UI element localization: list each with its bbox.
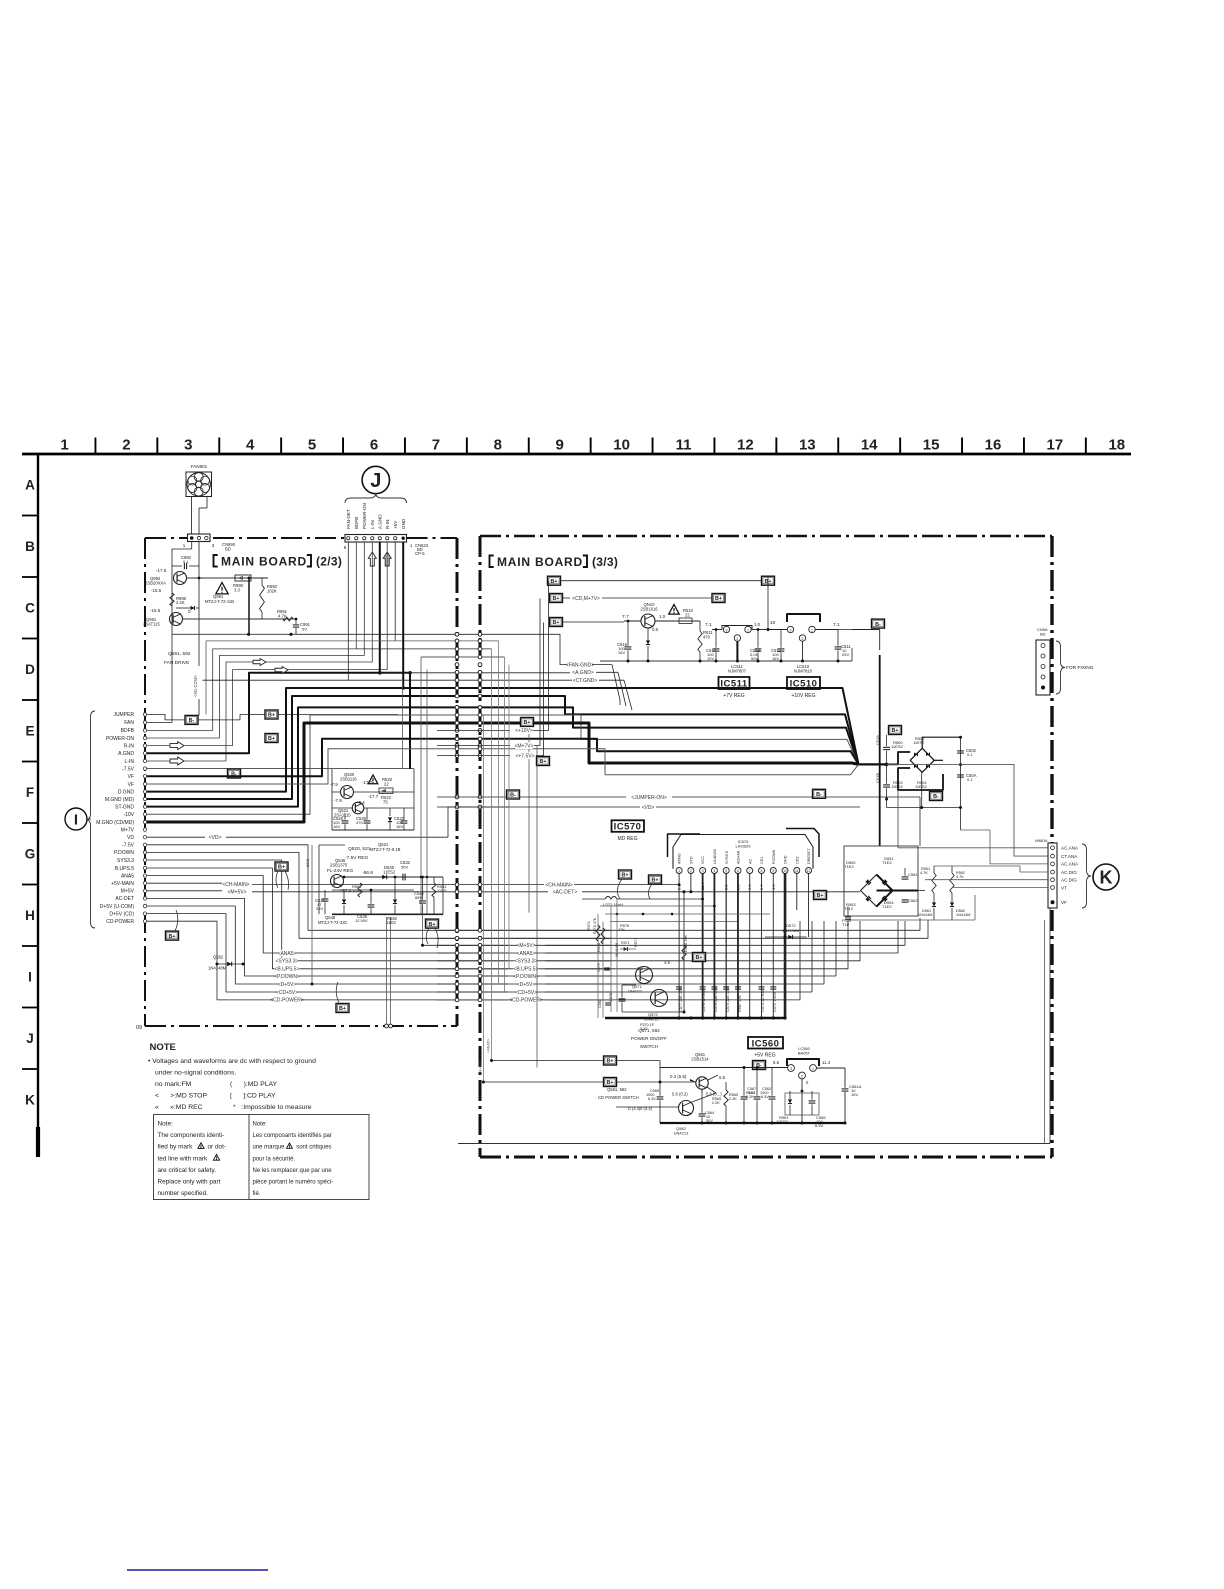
svg-text:<CD+5V>: <CD+5V> xyxy=(515,990,537,996)
svg-text:B+: B+ xyxy=(715,596,722,602)
svg-text:BDFB: BDFB xyxy=(354,517,359,529)
svg-text:11ES: 11ES xyxy=(386,920,396,925)
svg-text:T1E2: T1E2 xyxy=(844,864,854,869)
svg-text:<VD>: <VD> xyxy=(642,805,655,811)
svg-text:D: D xyxy=(25,662,35,677)
svg-text:C575 22E 10V: C575 22E 10V xyxy=(714,987,718,1012)
svg-text:2: 2 xyxy=(690,869,692,873)
svg-text:CD-POWER: CD-POWER xyxy=(106,919,134,925)
svg-text:16V: 16V xyxy=(851,1092,858,1097)
svg-text:R576 10K: R576 10K xyxy=(684,935,688,952)
svg-text:M+5V: M+5V xyxy=(121,889,135,895)
svg-text:AC.ANA: AC.ANA xyxy=(1061,862,1079,867)
svg-text:16V: 16V xyxy=(772,656,779,661)
svg-text:-15.5: -15.5 xyxy=(151,588,162,593)
svg-text:12: 12 xyxy=(807,869,811,873)
svg-text:B+: B+ xyxy=(539,759,546,765)
svg-text:2SB1616: 2SB1616 xyxy=(640,607,658,612)
svg-text:( ):MD PLAY: ( ):MD PLAY xyxy=(230,1081,278,1088)
svg-text:2: 2 xyxy=(802,637,804,641)
svg-text:1: 1 xyxy=(812,1067,814,1071)
svg-text:(3/3): (3/3) xyxy=(592,555,618,569)
svg-text:5V: 5V xyxy=(302,627,307,632)
svg-text:B+: B+ xyxy=(278,865,285,871)
svg-text:T1E2: T1E2 xyxy=(882,860,892,865)
svg-text:no mark:FM: no mark:FM xyxy=(155,1081,192,1088)
svg-text:R571: R571 xyxy=(634,938,638,947)
svg-text:VD: VD xyxy=(127,835,134,841)
svg-text:47K: 47K xyxy=(618,928,625,932)
svg-text:K: K xyxy=(25,1093,35,1108)
svg-text:7.7: 7.7 xyxy=(622,614,629,620)
svg-text:AC: AC xyxy=(748,858,752,864)
svg-text:C577 22E 10V: C577 22E 10V xyxy=(679,987,683,1012)
svg-text:7: 7 xyxy=(432,437,440,454)
svg-text:B+: B+ xyxy=(606,1059,613,1065)
svg-text:IC570: IC570 xyxy=(614,822,642,833)
svg-text:• Voltages and waveforms are d: • Voltages and waveforms are dc with res… xyxy=(148,1058,316,1065)
svg-text:ted line with mark: ted line with mark xyxy=(158,1155,209,1162)
svg-text:2SB1514: 2SB1514 xyxy=(691,1057,709,1062)
svg-text:MAIN BOARD: MAIN BOARD xyxy=(221,555,307,569)
svg-text:P.DOWN: P.DOWN xyxy=(114,850,134,856)
svg-text:B+: B+ xyxy=(621,873,628,879)
svg-text:<ANA5>: <ANA5> xyxy=(278,951,297,957)
svg-text:<FAN-GND>: <FAN-GND> xyxy=(566,662,594,668)
svg-text:35V: 35V xyxy=(316,906,323,911)
svg-text:<D+5V>: <D+5V> xyxy=(278,982,297,988)
svg-text:6: 6 xyxy=(370,437,378,454)
svg-text:3.3: 3.3 xyxy=(637,966,643,971)
svg-text:1N4148M: 1N4148M xyxy=(208,966,227,971)
svg-text:B+: B+ xyxy=(550,579,557,585)
svg-text:G: G xyxy=(25,847,36,862)
svg-text:VF: VF xyxy=(128,774,134,780)
svg-text:<CD,M+7V>: <CD,M+7V> xyxy=(572,596,600,602)
svg-text:9: 9 xyxy=(772,869,774,873)
svg-text:FAN901: FAN901 xyxy=(191,464,208,469)
svg-text:GND: GND xyxy=(784,855,788,864)
svg-text:<A.GND>: <A.GND> xyxy=(572,670,594,676)
svg-text:B+: B+ xyxy=(552,596,559,602)
svg-text:C579: C579 xyxy=(597,963,601,972)
svg-text:6.3V: 6.3V xyxy=(761,1095,769,1099)
svg-text:<CH-MAIN>: <CH-MAIN> xyxy=(222,882,249,888)
svg-text:-56.8: -56.8 xyxy=(362,870,373,876)
svg-text:BD: BD xyxy=(225,547,231,552)
svg-text:SWITCH: SWITCH xyxy=(640,1044,658,1049)
svg-text:2.2K: 2.2K xyxy=(176,600,185,605)
svg-text:1: 1 xyxy=(747,628,749,632)
svg-text:Replace only with part: Replace only with part xyxy=(158,1179,221,1186)
svg-text:2.2K: 2.2K xyxy=(712,1101,720,1105)
svg-text:VF: VF xyxy=(1061,900,1067,905)
svg-text:<P.DOWN>: <P.DOWN> xyxy=(274,974,300,980)
svg-text:ULANA5: ULANA5 xyxy=(713,849,717,864)
svg-text:102K: 102K xyxy=(267,589,277,594)
svg-text:<JUMPER-ON>: <JUMPER-ON> xyxy=(631,795,667,801)
svg-text:STD: STD xyxy=(689,856,693,864)
svg-text:11: 11 xyxy=(795,869,799,873)
svg-text:2SB1375: 2SB1375 xyxy=(330,863,348,868)
svg-text:BD: BD xyxy=(1040,632,1046,637)
svg-text:C562: C562 xyxy=(908,898,918,903)
svg-text:5: 5 xyxy=(308,437,316,454)
svg-text:IC560: IC560 xyxy=(752,1038,780,1049)
svg-text:Q561, 562: Q561, 562 xyxy=(607,1087,627,1092)
svg-text:ANA5: ANA5 xyxy=(121,873,134,879)
svg-text:UN4111: UN4111 xyxy=(628,989,643,994)
svg-text:MAIN BOARD: MAIN BOARD xyxy=(497,555,583,569)
svg-text:Note:: Note: xyxy=(158,1121,173,1128)
svg-text:B-: B- xyxy=(875,622,881,628)
svg-text:-33.4: -33.4 xyxy=(340,888,351,894)
svg-text:(2/3): (2/3) xyxy=(316,555,342,569)
svg-text:6: 6 xyxy=(737,869,739,873)
svg-text:LACB29: LACB29 xyxy=(736,844,752,849)
svg-text:B: B xyxy=(25,539,35,554)
svg-text:IC511: IC511 xyxy=(720,679,748,690)
svg-text:T1E2: T1E2 xyxy=(882,904,892,909)
svg-text:ATMG: ATMG xyxy=(678,853,682,864)
svg-text:are critical for safety.: are critical for safety. xyxy=(158,1167,217,1174)
svg-text:FL-24V REG: FL-24V REG xyxy=(327,868,354,873)
svg-text:H: H xyxy=(25,908,35,923)
svg-text:Q520, 521: Q520, 521 xyxy=(348,846,371,852)
svg-text:09: 09 xyxy=(136,1025,142,1031)
svg-text:2: 2 xyxy=(122,437,130,454)
svg-text:4.7K: 4.7K xyxy=(956,875,964,879)
svg-text:1N414M: 1N414M xyxy=(615,943,619,957)
svg-text:3.3V: 3.3V xyxy=(640,1027,648,1031)
svg-text:1: 1 xyxy=(811,628,813,632)
svg-text:T012: T012 xyxy=(844,906,854,911)
svg-text:B+: B+ xyxy=(428,922,435,928)
svg-text:JUMPER: JUMPER xyxy=(113,712,134,718)
svg-text:5.6: 5.6 xyxy=(719,1075,726,1080)
svg-text:1/2W: 1/2W xyxy=(352,888,362,893)
svg-text:B-: B- xyxy=(189,718,195,724)
svg-text:C573 22 50V: C573 22 50V xyxy=(761,989,765,1012)
svg-text:-7.9: -7.9 xyxy=(330,782,338,787)
svg-text:4.7K: 4.7K xyxy=(920,871,928,875)
svg-text:-7.5V: -7.5V xyxy=(122,843,135,849)
svg-text:C578: C578 xyxy=(609,993,613,1002)
svg-text:R-IN: R-IN xyxy=(385,520,390,529)
svg-text:pièce portant le numéro spéci-: pièce portant le numéro spéci- xyxy=(253,1180,334,1186)
svg-text:12 50V: 12 50V xyxy=(355,918,368,923)
svg-text:50V: 50V xyxy=(401,865,408,870)
svg-text:5.6 (0.2): 5.6 (0.2) xyxy=(672,1092,688,1097)
svg-text:17: 17 xyxy=(1047,437,1064,454)
svg-text:C574 22E 10V: C574 22E 10V xyxy=(726,987,730,1012)
svg-text:-15.5: -15.5 xyxy=(150,608,161,613)
svg-text:<VD>: <VD> xyxy=(209,835,222,841)
svg-text:12: 12 xyxy=(737,437,754,454)
svg-text:I: I xyxy=(28,970,32,985)
svg-text:J: J xyxy=(370,470,381,492)
svg-text:CD1: CD1 xyxy=(760,856,764,864)
svg-text:4.7K: 4.7K xyxy=(278,614,287,619)
svg-text:16V: 16V xyxy=(618,650,625,655)
svg-text:AGHAK: AGHAK xyxy=(737,850,741,864)
svg-text:B+: B+ xyxy=(552,620,559,626)
svg-text:6.3V: 6.3V xyxy=(648,1097,656,1101)
svg-text:The components identi-: The components identi- xyxy=(158,1132,225,1139)
svg-text:J: J xyxy=(26,1031,34,1046)
svg-text:16: 16 xyxy=(985,437,1002,454)
svg-text:3.3: 3.3 xyxy=(234,588,240,593)
svg-text:8: 8 xyxy=(494,437,502,454)
svg-text:-10V: -10V xyxy=(123,812,134,818)
svg-text:<M1-COM>: <M1-COM> xyxy=(193,675,198,697)
svg-text:C576 10 50V: C576 10 50V xyxy=(702,989,706,1012)
svg-text:R578: R578 xyxy=(597,943,601,952)
svg-text:10: 10 xyxy=(770,620,776,626)
svg-text:-52.6: -52.6 xyxy=(305,858,310,868)
svg-text:pour la sécurité.: pour la sécurité. xyxy=(253,1156,296,1162)
svg-text:16V: 16V xyxy=(333,824,340,829)
svg-text:0.01: 0.01 xyxy=(748,1091,755,1095)
svg-text:<B.UPS.5>: <B.UPS.5> xyxy=(274,967,299,973)
svg-text:C: C xyxy=(25,601,35,616)
svg-text:1: 1 xyxy=(678,869,680,873)
svg-text:E: E xyxy=(25,724,34,739)
svg-text:11ES: 11ES xyxy=(437,888,447,893)
svg-text:BA05T: BA05T xyxy=(798,1051,811,1056)
svg-text:3: 3 xyxy=(702,869,704,873)
svg-text:B-: B- xyxy=(816,792,822,798)
svg-text:<AC-DET>: <AC-DET> xyxy=(553,890,578,896)
svg-text:AC-DET: AC-DET xyxy=(115,896,134,902)
svg-text:7.1: 7.1 xyxy=(705,622,712,628)
svg-text:B+: B+ xyxy=(695,955,702,961)
svg-text:<CH-MAIN>: <CH-MAIN> xyxy=(545,882,572,888)
svg-text:VF: VF xyxy=(128,782,134,788)
svg-text:25V: 25V xyxy=(842,652,849,657)
svg-text:T1P: T1P xyxy=(842,922,850,927)
svg-text:GND: GND xyxy=(401,518,406,529)
svg-text:-7.5V REG: -7.5V REG xyxy=(345,855,368,861)
svg-text:CP-5: CP-5 xyxy=(415,551,425,556)
svg-text:<SYS3.3>: <SYS3.3> xyxy=(515,959,538,965)
svg-text:I: I xyxy=(74,812,78,829)
svg-text:C561: C561 xyxy=(908,872,918,877)
svg-text:CT.ANA: CT.ANA xyxy=(1061,854,1078,859)
svg-text:D+5V (U-COM): D+5V (U-COM) xyxy=(100,904,135,910)
svg-text:F: F xyxy=(26,785,34,800)
svg-text:7.1: 7.1 xyxy=(833,622,840,628)
svg-text:75: 75 xyxy=(383,800,388,805)
svg-text:<D+5V>: <D+5V> xyxy=(517,982,536,988)
svg-text:B+: B+ xyxy=(168,934,175,940)
svg-text:5.6: 5.6 xyxy=(773,1060,780,1065)
svg-text:B+: B+ xyxy=(651,878,658,884)
svg-text:R-IN: R-IN xyxy=(124,743,135,749)
svg-text:1N414M: 1N414M xyxy=(956,913,970,917)
svg-text:+10V REG: +10V REG xyxy=(791,693,815,699)
svg-text:0.3 (5.6): 0.3 (5.6) xyxy=(670,1074,687,1079)
svg-text:0.1: 0.1 xyxy=(183,559,189,564)
svg-text:<CD-POWER>: <CD-POWER> xyxy=(509,998,543,1004)
svg-text:B+: B+ xyxy=(268,736,275,742)
svg-text:<+10V>: <+10V> xyxy=(515,728,533,734)
svg-text:FAN DRIVE: FAN DRIVE xyxy=(164,660,189,666)
svg-text:AC.DIG: AC.DIG xyxy=(1061,870,1077,875)
svg-text:fié.: fié. xyxy=(253,1191,261,1197)
svg-text:N980A: N980A xyxy=(1035,838,1048,843)
svg-text:<CT.GND>: <CT.GND> xyxy=(573,678,598,684)
svg-text:10V: 10V xyxy=(707,656,714,661)
svg-text:3: 3 xyxy=(184,437,192,454)
svg-text:<M+5V>: <M+5V> xyxy=(479,1060,483,1075)
svg-text:fied by mark: fied by mark xyxy=(158,1144,194,1151)
svg-text:VT: VT xyxy=(1061,885,1067,890)
svg-text:0.5: 0.5 xyxy=(652,627,659,632)
svg-text:UN4211: UN4211 xyxy=(644,1017,659,1022)
svg-text:11: 11 xyxy=(676,437,692,454)
svg-text:< >:MD STOP: < >:MD STOP xyxy=(155,1093,207,1100)
svg-text:R567 47K: R567 47K xyxy=(738,995,742,1012)
svg-text:68V: 68V xyxy=(415,895,422,900)
svg-text:14: 14 xyxy=(861,437,878,454)
svg-text:+5V: +5V xyxy=(393,520,398,529)
svg-text:Les composants identifiés par: Les composants identifiés par xyxy=(253,1133,332,1139)
svg-text:R574: R574 xyxy=(587,921,591,930)
svg-text:<B.UPS.5>: <B.UPS.5> xyxy=(513,967,538,973)
svg-text:+5V-MAIN: +5V-MAIN xyxy=(111,881,134,887)
svg-text:A.GND: A.GND xyxy=(118,751,134,757)
svg-text:DRESET: DRESET xyxy=(807,848,811,864)
svg-text:2SB1116: 2SB1116 xyxy=(340,777,357,782)
svg-text:3: 3 xyxy=(790,1067,792,1071)
svg-text:* :Impossible to measure: * :Impossible to measure xyxy=(233,1104,312,1111)
svg-text:1.0: 1.0 xyxy=(754,622,761,627)
svg-text:IC510: IC510 xyxy=(790,679,818,690)
svg-text:MD REG: MD REG xyxy=(618,836,638,842)
svg-text:UN4213: UN4213 xyxy=(674,1131,689,1136)
svg-text:13: 13 xyxy=(799,437,816,454)
svg-text:POWER ON/OFF: POWER ON/OFF xyxy=(631,1036,667,1041)
svg-text:<M+5V>: <M+5V> xyxy=(516,943,535,949)
svg-text:[ ]:CD PLAY: [ ]:CD PLAY xyxy=(230,1093,276,1100)
svg-text:2SAT115: 2SAT115 xyxy=(143,622,161,627)
svg-text:FOR FIXING: FOR FIXING xyxy=(1066,665,1094,671)
svg-text:L-IN: L-IN xyxy=(125,759,135,765)
svg-text:SYS5.5: SYS5.5 xyxy=(725,851,729,864)
svg-text:8: 8 xyxy=(761,869,763,873)
svg-text:<CD-POWER>: <CD-POWER> xyxy=(270,998,304,1004)
svg-text:1N414M: 1N414M xyxy=(918,913,932,917)
svg-text:MTZJ-T-72-9.1B: MTZJ-T-72-9.1B xyxy=(370,847,401,852)
svg-text:SYS3.3: SYS3.3 xyxy=(117,858,134,864)
svg-text:R57A 47K: R57A 47K xyxy=(593,917,597,934)
svg-text:11ES2: 11ES2 xyxy=(383,870,396,875)
svg-text:<+7.5V>: <+7.5V> xyxy=(515,753,534,759)
svg-text:C572 1 50V: C572 1 50V xyxy=(773,991,777,1012)
svg-text:CD2: CD2 xyxy=(795,856,799,864)
svg-text:AC.ANA: AC.ANA xyxy=(1061,846,1079,851)
svg-text:POWER-ON: POWER-ON xyxy=(362,503,367,529)
svg-text:0.1: 0.1 xyxy=(967,777,973,782)
svg-text:FAN: FAN xyxy=(124,720,134,726)
svg-text:B+: B+ xyxy=(891,728,898,734)
svg-text:4.9: 4.9 xyxy=(664,960,670,965)
svg-text:<M+7V>: <M+7V> xyxy=(514,743,533,749)
svg-text:POWER-ON: POWER-ON xyxy=(106,736,134,742)
svg-text:<ANA5>: <ANA5> xyxy=(517,951,536,957)
svg-text:B-: B- xyxy=(933,794,939,800)
svg-text:number specified.: number specified. xyxy=(158,1190,209,1197)
svg-text:470: 470 xyxy=(703,635,711,640)
svg-text:K: K xyxy=(1100,868,1113,888)
svg-text:B+: B+ xyxy=(816,893,823,899)
svg-text:B+: B+ xyxy=(268,713,275,719)
svg-text:NJM7807: NJM7807 xyxy=(728,669,747,674)
svg-text:MTZJ-T-72-11B: MTZJ-T-72-11B xyxy=(205,599,234,604)
svg-text:AC.DIG: AC.DIG xyxy=(1061,878,1077,883)
svg-text:3: 3 xyxy=(726,628,728,632)
svg-text:2.2K: 2.2K xyxy=(746,1095,754,1099)
svg-text:« »:MD REC: « »:MD REC xyxy=(155,1104,203,1111)
svg-text:470: 470 xyxy=(356,820,363,825)
svg-text:1: 1 xyxy=(60,437,68,454)
svg-text:15: 15 xyxy=(923,437,940,454)
svg-text:B-: B- xyxy=(510,793,516,799)
svg-text:0.1: 0.1 xyxy=(967,752,973,757)
svg-text:BDFB: BDFB xyxy=(121,728,135,734)
svg-text:B+: B+ xyxy=(606,1080,613,1086)
svg-text:7: 7 xyxy=(749,869,751,873)
svg-text:Note:: Note: xyxy=(253,1122,268,1128)
svg-text:22: 22 xyxy=(384,782,389,787)
svg-text:<M+5V>: <M+5V> xyxy=(227,889,246,895)
svg-text:9: 9 xyxy=(556,437,564,454)
svg-text:VCC: VCC xyxy=(701,856,705,864)
svg-text:+7V REG: +7V REG xyxy=(723,693,744,699)
svg-text:D (4.4): D (4.4) xyxy=(628,1106,641,1111)
svg-text:M.GND (CD/MD): M.GND (CD/MD) xyxy=(96,820,134,826)
svg-text:M.GND (MD): M.GND (MD) xyxy=(105,797,134,803)
svg-text:M+7V: M+7V xyxy=(121,827,135,833)
svg-text:B+: B+ xyxy=(339,1006,346,1012)
svg-text:<P.DOWN>: <P.DOWN> xyxy=(513,974,539,980)
svg-text:or dot-: or dot- xyxy=(208,1144,226,1151)
svg-text:NOTE: NOTE xyxy=(150,1042,176,1053)
svg-text:2.2K: 2.2K xyxy=(729,1097,737,1101)
svg-text:C580: C580 xyxy=(598,999,602,1008)
svg-text:PCDWN: PCDWN xyxy=(772,849,776,864)
svg-text:B.UPS.5: B.UPS.5 xyxy=(115,866,134,872)
svg-text:+5V REG: +5V REG xyxy=(754,1053,775,1059)
svg-text:<CD+5V>: <CD+5V> xyxy=(276,990,298,996)
svg-text:10: 10 xyxy=(613,437,630,454)
svg-text:10: 10 xyxy=(783,869,787,873)
svg-text:R571: R571 xyxy=(621,941,630,945)
svg-text:-7.9: -7.9 xyxy=(334,798,342,803)
svg-text:A.GND: A.GND xyxy=(378,514,383,529)
svg-text:L-IN: L-IN xyxy=(370,520,375,529)
svg-text:4: 4 xyxy=(246,437,255,454)
svg-text:<ANA5>: <ANA5> xyxy=(487,1038,491,1053)
svg-text:1N4148M: 1N4148M xyxy=(782,928,799,933)
svg-text:ST-GND: ST-GND xyxy=(115,804,134,810)
svg-text:FAN-DET: FAN-DET xyxy=(346,509,351,529)
svg-text:11ES7: 11ES7 xyxy=(913,740,925,745)
svg-text:4: 4 xyxy=(713,869,715,873)
svg-text:2: 2 xyxy=(801,1074,803,1078)
svg-text:A: A xyxy=(25,478,35,493)
